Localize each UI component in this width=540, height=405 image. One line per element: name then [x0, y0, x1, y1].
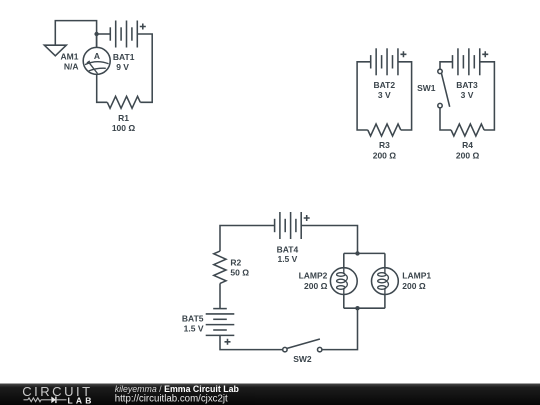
svg-text:AM1: AM1	[61, 51, 79, 61]
lamp LAMP2	[330, 253, 357, 308]
BAT3 plus sign	[482, 51, 488, 57]
BAT1 plus sign	[140, 24, 146, 30]
switch SW1	[438, 69, 450, 108]
wire: BAT5 bottom to switch SW2 left	[220, 335, 283, 349]
wire: BAT3 left terminal to switch SW1 top	[440, 62, 453, 69]
svg-text:200 Ω: 200 Ω	[304, 281, 328, 291]
battery BAT4	[275, 212, 302, 239]
ammeter AM1	[83, 47, 110, 74]
BAT2 plus sign	[400, 51, 406, 57]
svg-text:kileyemma / Emma Circuit Lab: kileyemma / Emma Circuit Lab	[115, 384, 240, 394]
node A junction dot	[94, 32, 98, 36]
svg-text:1.5 V: 1.5 V	[277, 254, 297, 264]
wire: R3 right up to BAT2 right terminal	[398, 62, 412, 130]
logo schematic: wire	[41, 399, 51, 401]
wire: bottom rail between lamps	[344, 307, 385, 309]
wire: BAT4 left terminal to resistor R2	[220, 226, 275, 252]
battery BAT2	[371, 48, 398, 75]
wire: top rail between lamps	[344, 252, 385, 254]
svg-text:R4: R4	[462, 140, 473, 150]
svg-text:200 Ω: 200 Ω	[456, 151, 480, 161]
logo schematic: wire to LAB	[56, 399, 67, 401]
svg-text:R1: R1	[118, 113, 129, 123]
BAT4 plus sign	[304, 215, 310, 221]
wire: SW1 bottom to resistor R4	[440, 108, 451, 130]
logo schematic: wire	[24, 399, 28, 401]
svg-text:1.5 V: 1.5 V	[184, 324, 204, 334]
logo schematic: resistor	[28, 398, 41, 402]
svg-text:http://circuitlab.com/cjxc2jt: http://circuitlab.com/cjxc2jt	[115, 394, 228, 405]
wire: BAT4 right terminal to top rail	[301, 226, 357, 254]
svg-text:R2: R2	[230, 258, 241, 268]
resistor R1	[107, 96, 140, 108]
wire: node A down to ammeter top	[96, 34, 98, 47]
svg-text:BAT2: BAT2	[374, 80, 396, 90]
wire: R1 left to ammeter bottom	[97, 74, 108, 102]
svg-text:50 Ω: 50 Ω	[230, 268, 249, 278]
wire: node A to battery BAT1 left terminal	[97, 33, 111, 35]
battery BAT3	[453, 48, 480, 75]
svg-text:N/A: N/A	[64, 61, 79, 71]
footer bar	[0, 384, 540, 405]
BAT5 plus sign	[225, 339, 231, 345]
wire: ground up and over to node A	[55, 21, 96, 48]
svg-text:A: A	[94, 51, 100, 61]
battery BAT1	[110, 21, 137, 48]
wire: SW2 right to lamps bottom rail	[322, 308, 358, 349]
svg-text:200 Ω: 200 Ω	[402, 281, 426, 291]
battery BAT5	[206, 309, 235, 336]
wire: R2 bottom to battery BAT5 top	[219, 283, 221, 308]
svg-text:9 V: 9 V	[116, 62, 129, 72]
switch SW2	[283, 339, 322, 352]
node C junction dot (bottom rail)	[355, 306, 359, 310]
svg-text:BAT3: BAT3	[456, 80, 478, 90]
resistor R2	[214, 251, 226, 283]
svg-text:SW1: SW1	[417, 83, 436, 93]
svg-text:3 V: 3 V	[461, 90, 474, 100]
svg-text:100 Ω: 100 Ω	[112, 123, 136, 133]
svg-text:3 V: 3 V	[378, 90, 391, 100]
resistor R3	[368, 124, 401, 136]
wire: BAT1 right terminal down to resistor R1	[137, 34, 152, 102]
svg-text:R3: R3	[379, 140, 390, 150]
svg-text:BAT5: BAT5	[182, 314, 204, 324]
node B junction dot (top rail)	[355, 251, 359, 255]
svg-text:BAT1: BAT1	[113, 52, 135, 62]
logo schematic: diode	[51, 397, 56, 404]
ground	[44, 45, 66, 56]
resistor R4	[451, 124, 484, 136]
svg-text:BAT4: BAT4	[277, 244, 299, 254]
svg-text:LAB: LAB	[68, 395, 95, 405]
wire: BAT2 left side loop	[357, 62, 371, 130]
svg-text:LAMP2: LAMP2	[299, 271, 328, 281]
lamp LAMP1	[372, 253, 399, 308]
svg-text:SW2: SW2	[293, 354, 312, 364]
wire: R4 right up to BAT3 right terminal	[480, 62, 495, 130]
svg-text:200 Ω: 200 Ω	[373, 151, 397, 161]
svg-text:LAMP1: LAMP1	[402, 271, 431, 281]
